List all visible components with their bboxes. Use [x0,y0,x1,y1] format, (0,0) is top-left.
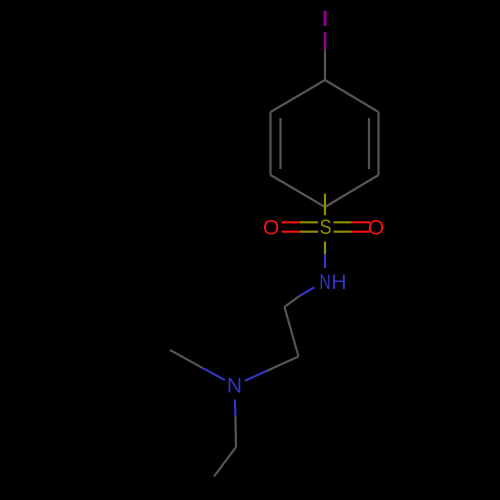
bond NH-Ca carbon half [285,296,300,307]
bond I-C1 iodine half [324,32,327,50]
atom label H amide [331,271,346,294]
bond I-C1 carbon half [324,50,326,80]
bond Cb-N carbon half [267,357,299,372]
bond Cb-N nitrogen half [245,371,267,381]
bond N-Cf nitrogen half [234,400,237,417]
bond N-Cf carbon half [234,417,237,448]
S=O right double bond [334,221,352,223]
bond Ca-Cb [285,307,299,357]
svg-text:O: O [368,217,384,240]
bond NH-Ca nitrogen half [299,287,315,296]
atom label N amide [319,270,330,294]
atom label S [320,216,332,240]
bond N-Ce carbon half [170,350,202,368]
bond N-Ce nitrogen half [202,368,225,380]
atom label N ring [227,375,242,398]
svg-text:O: O [263,217,279,240]
bond Cf-CH3 [214,447,236,477]
inner double-bond line right [368,118,370,169]
svg-text:N: N [227,375,242,398]
svg-text:S: S [320,216,332,240]
atom label O left [263,217,279,240]
atom label O right [368,217,384,240]
bond S-N sulfur half [324,242,326,255]
bond C4-S sulfur half [324,194,326,216]
svg-text:N: N [319,270,330,294]
S=O left double bond [282,221,300,223]
inner double-bond line left [279,118,281,169]
benzene ring [271,80,379,207]
bond S-N nitrogen half [324,254,326,268]
svg-text:H: H [331,271,346,294]
atom label I [324,11,327,26]
